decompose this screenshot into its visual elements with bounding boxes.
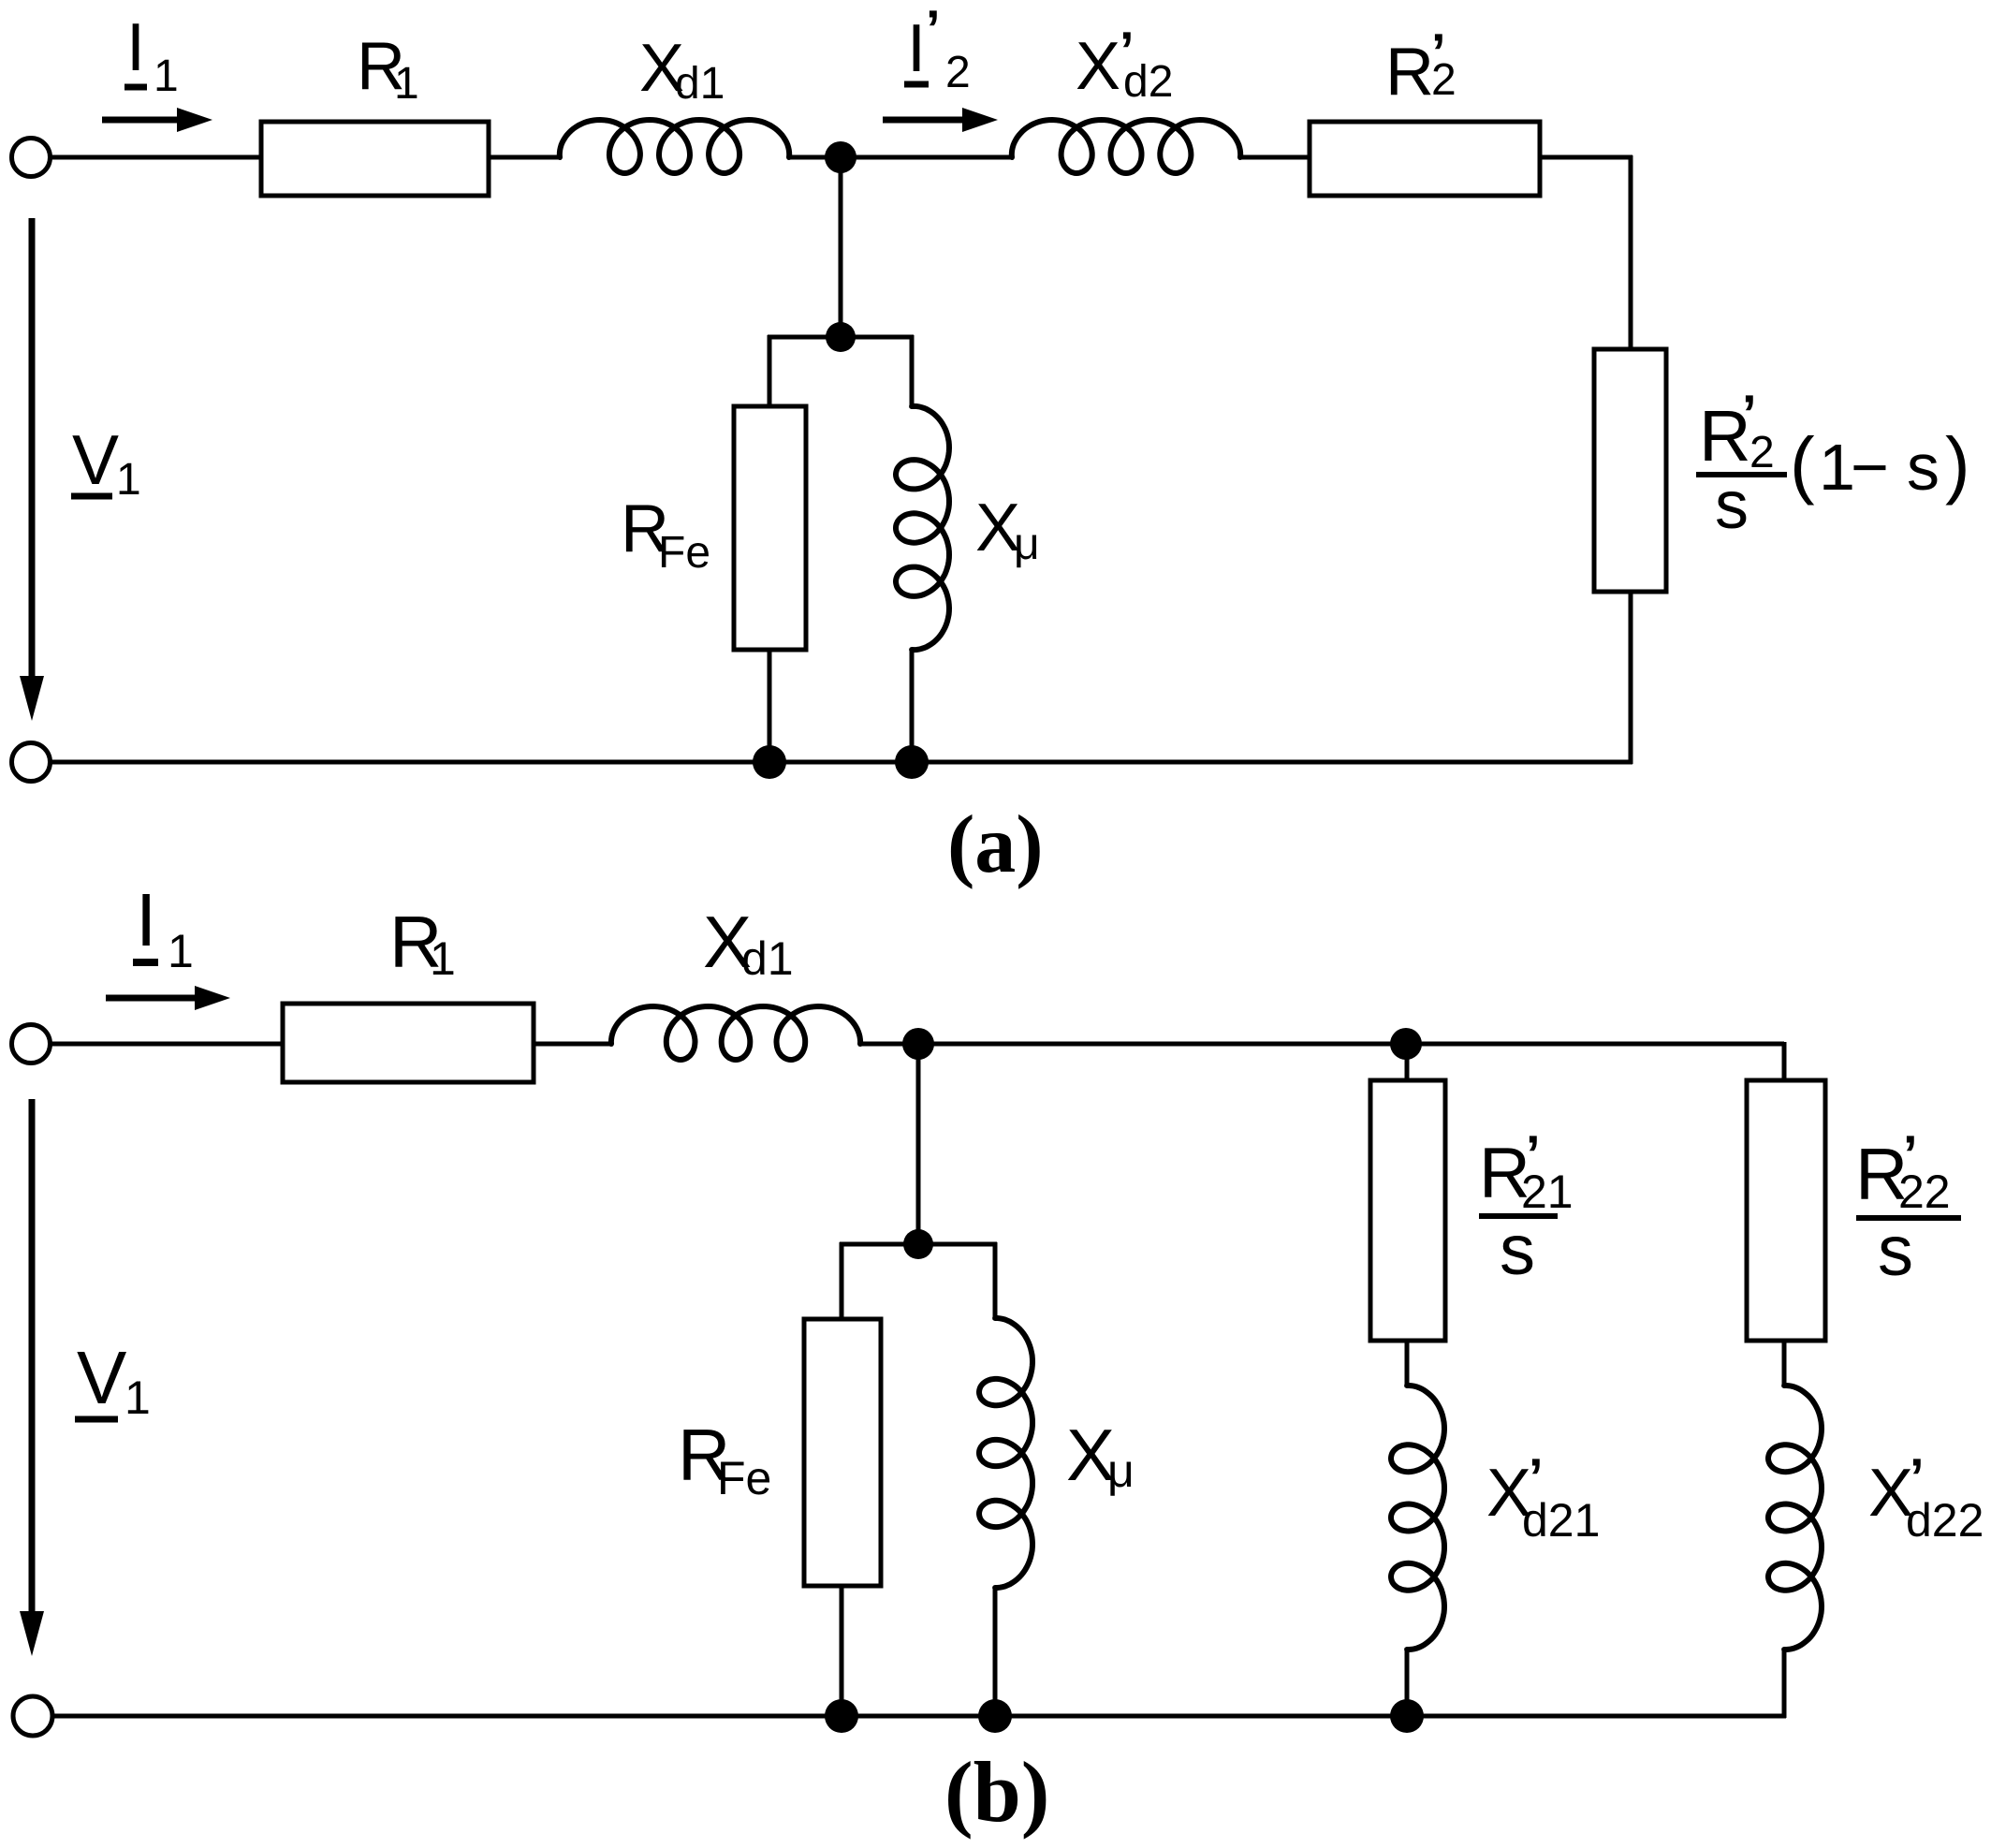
label R1 (b): [389, 901, 456, 985]
svg-text:1: 1: [124, 1371, 151, 1424]
label Xd22prime (b): [1868, 1447, 1984, 1547]
label I2prime (a): [904, 0, 971, 97]
current arrow I2prime (a): [883, 108, 998, 132]
terminal (a) top-left: [12, 139, 51, 177]
label R21prime/s (b): [1479, 1124, 1574, 1290]
inductor Xd1 (a): [560, 120, 789, 173]
svg-text:d1: d1: [675, 59, 725, 109]
node (b) bottom Xmu: [978, 1699, 1012, 1733]
wire (b): centre node down to shunt junction: [916, 1044, 921, 1246]
label R2prime (a): [1385, 22, 1457, 110]
svg-text:(b): (b): [944, 1744, 1049, 1840]
resistor RFe (a): [734, 406, 806, 650]
svg-text:(: (: [1790, 422, 1815, 506]
svg-text:): ): [1945, 422, 1970, 506]
svg-text:X: X: [1076, 29, 1120, 104]
wire (b): shunt junction bar: [840, 1242, 997, 1247]
svg-text:s: s: [1500, 1210, 1535, 1290]
node (a) bottom RFe: [753, 745, 786, 779]
label V1 (b): [75, 1336, 151, 1424]
node (a) top junction: [825, 141, 856, 173]
wire (b) top: Xd1 to right corner: [858, 1042, 1784, 1047]
svg-text:μ: μ: [1107, 1445, 1135, 1497]
node (b) R21prime junction: [1390, 1028, 1422, 1060]
svg-text:Fe: Fe: [658, 528, 710, 578]
wire (a): R2prime to top-right corner: [1540, 155, 1632, 160]
wire (a): junction to Xmu: [910, 335, 915, 408]
label RFe (b): [678, 1414, 771, 1504]
terminal (a) bottom-left: [12, 743, 51, 782]
svg-text:2: 2: [1431, 55, 1457, 105]
label Xd1 (b): [703, 901, 794, 985]
wire (a): Xd2prime to R2prime: [1238, 155, 1310, 160]
terminal (b) bottom-left: [13, 1696, 52, 1736]
svg-text:d21: d21: [1522, 1494, 1600, 1547]
wire (b): R22prime box to coil: [1782, 1341, 1787, 1387]
inductor Xd1 (b): [611, 1006, 860, 1060]
node (b) bottom Xd21prime: [1390, 1699, 1424, 1733]
wire (a): top node down to shunt junction: [839, 157, 843, 339]
inductor Xd22prime (b): [1768, 1386, 1822, 1650]
wire (b) right side down to R22prime: [1782, 1042, 1787, 1082]
svg-text:1: 1: [394, 59, 419, 109]
label I1 (b): [133, 878, 194, 977]
node (b) centre junction top: [902, 1028, 934, 1060]
node (a) bottom Xmu: [895, 745, 929, 779]
svg-text:2: 2: [945, 48, 971, 97]
svg-text:2: 2: [1749, 428, 1775, 477]
inductor Xd21prime (b): [1391, 1386, 1444, 1650]
svg-text:(a): (a): [947, 799, 1044, 890]
resistor RFe (b): [804, 1319, 881, 1586]
wire (a): Xmu to bottom wire: [910, 650, 915, 762]
wire (a) right side down to load resistor: [1629, 155, 1633, 349]
label R22prime/s (b): [1855, 1124, 1961, 1291]
wire (a): load resistor to bottom wire: [1629, 592, 1633, 764]
svg-text:V: V: [72, 420, 119, 499]
svg-text:V: V: [77, 1336, 127, 1419]
svg-text:1: 1: [116, 455, 141, 505]
svg-text:s: s: [1715, 468, 1749, 543]
label R1 (a): [357, 29, 419, 109]
label Xd1 (a): [639, 31, 725, 109]
svg-text:s: s: [1878, 1211, 1913, 1291]
svg-text:I: I: [907, 11, 926, 86]
wire (b): Xd21prime coil to bottom wire: [1405, 1648, 1410, 1716]
svg-text:μ: μ: [1014, 520, 1040, 569]
wire (b) top: terminal to R1: [51, 1042, 283, 1047]
wire (a) bottom: [51, 760, 1632, 765]
node (b) bottom RFe: [825, 1699, 858, 1733]
label Xmu (b): [1066, 1414, 1135, 1497]
inductor Xd2prime (a): [1012, 120, 1240, 173]
terminal (b) top-left: [12, 1025, 51, 1063]
wire (b): R21prime box to coil: [1405, 1341, 1410, 1387]
resistor R21prime/s (b): [1370, 1080, 1445, 1341]
voltage arrow V1 (a): [20, 218, 44, 721]
wire (b): R21prime node to box: [1405, 1044, 1410, 1082]
svg-text:’: ’: [926, 0, 941, 58]
wire (a): R1 to Xd1: [489, 155, 562, 160]
wire (a): shunt junction bar: [768, 335, 914, 340]
wire (b): junction to RFe: [840, 1242, 844, 1321]
node (b) shunt junction: [903, 1229, 933, 1259]
svg-text:I: I: [136, 878, 156, 961]
resistor R22prime/s (b): [1747, 1080, 1825, 1341]
label RFe (a): [621, 491, 710, 578]
wire (b): R1 to Xd1: [534, 1042, 613, 1047]
wire (a): junction to RFe: [768, 335, 772, 408]
wire (a) top: terminal to R1: [51, 155, 261, 160]
resistor R1 (b): [283, 1004, 534, 1082]
svg-text:−: −: [1851, 431, 1889, 504]
wire (b): Xmu to bottom wire: [993, 1588, 998, 1716]
wire (b): junction to Xmu: [993, 1242, 998, 1320]
label Xd21prime (b): [1486, 1447, 1600, 1547]
inductor Xmu (a): [896, 406, 949, 650]
voltage arrow V1 (b): [20, 1099, 44, 1656]
svg-text:1: 1: [154, 51, 179, 101]
svg-text:d22: d22: [1906, 1494, 1984, 1547]
svg-text:Fe: Fe: [717, 1452, 771, 1504]
wire (a): Xd1 to Xd2prime with node: [787, 155, 1014, 160]
label I1 (a): [124, 10, 179, 101]
wire (b) bottom: [52, 1714, 1786, 1719]
inductor Xmu (b): [979, 1318, 1032, 1588]
label Xmu (a): [975, 491, 1040, 569]
label Xd2prime (a): [1076, 21, 1173, 107]
wire (b): RFe to bottom wire: [840, 1586, 844, 1716]
wire (b): Xd22prime coil to bottom wire: [1782, 1648, 1787, 1718]
label R2prime/s (1-s) (a): [1696, 384, 1970, 543]
svg-text:1: 1: [168, 925, 194, 977]
current arrow I1 (b): [106, 986, 230, 1010]
resistor R1 (a): [261, 122, 489, 196]
svg-text:I: I: [126, 10, 145, 85]
svg-text:1: 1: [430, 932, 456, 985]
current arrow I1 (a): [102, 108, 212, 132]
label V1 (a): [71, 420, 141, 505]
svg-text:d1: d1: [741, 932, 794, 985]
svg-text:d2: d2: [1123, 57, 1173, 107]
svg-text:s: s: [1907, 431, 1940, 504]
svg-text:22: 22: [1898, 1166, 1951, 1218]
node (a) shunt junction: [826, 322, 856, 352]
resistor R2prime (a): [1310, 122, 1540, 196]
resistor R2prime/s(1-s) (a): [1594, 349, 1666, 592]
svg-text:R: R: [1385, 35, 1434, 110]
wire (a): RFe to bottom wire: [768, 650, 772, 762]
